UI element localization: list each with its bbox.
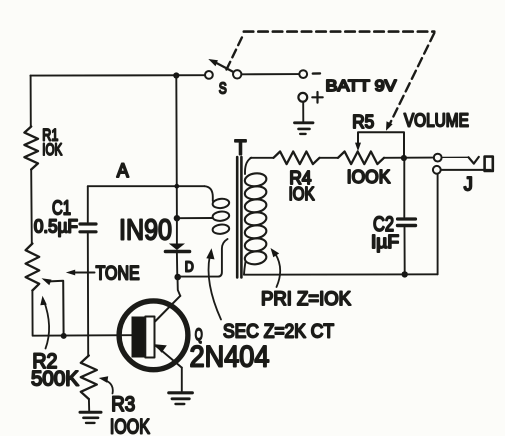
wire center tap to secondary (177, 217, 213, 219)
small junction dot at A crossing (174, 184, 179, 189)
transistor base bar (132, 317, 146, 358)
wire switch to battery terminal (242, 73, 299, 75)
transistor collector line (155, 296, 181, 322)
svg-text:500K: 500K (31, 367, 79, 390)
svg-text:A: A (117, 161, 129, 182)
svg-text:0.5µF: 0.5µF (34, 217, 78, 237)
svg-text:IOOK: IOOK (347, 167, 391, 187)
svg-text:R5: R5 (352, 112, 374, 132)
junction dot center tap (174, 215, 180, 221)
transformer T primary winding (245, 158, 252, 174)
primary bottom lead (244, 262, 246, 275)
switch S right terminal (233, 70, 241, 78)
capacitor C2 bottom lead (404, 228, 406, 275)
svg-text:IOK: IOK (289, 184, 315, 204)
wire primary top to R4 (251, 157, 274, 159)
svg-text:J: J (464, 175, 473, 196)
svg-text:S: S (219, 80, 227, 97)
wire node D to secondary bottom (178, 239, 228, 277)
diode D1 1N90 (169, 244, 185, 251)
jack tip contact V (469, 157, 479, 164)
svg-text:BATT 9V: BATT 9V (326, 78, 397, 95)
capacitor C2 plates (398, 217, 416, 220)
resistor R1 (24, 127, 38, 170)
wire emitter to ground (181, 368, 183, 391)
node A wire (88, 185, 205, 187)
wire bottom rail (244, 273, 438, 275)
wire R3 to ground (88, 399, 90, 411)
svg-text:T: T (235, 137, 247, 160)
svg-text:TONE: TONE (96, 264, 140, 285)
svg-text:IOOK: IOOK (110, 416, 150, 436)
transformer T secondary winding (205, 186, 213, 201)
jack thin line (442, 156, 469, 158)
plus sign (312, 92, 322, 103)
svg-text:D: D (185, 259, 194, 276)
svg-text:PRI Z=IOK: PRI Z=IOK (261, 289, 351, 310)
wire R1 to R2 (30, 170, 33, 244)
wire to diode anode (176, 218, 178, 243)
resistor R4 (274, 152, 320, 165)
capacitor C2 top lead (403, 158, 405, 217)
R2 leader arrow (44, 301, 49, 349)
svg-text:IN90: IN90 (119, 214, 172, 246)
jack sleeve terminal (433, 166, 441, 174)
R2 wiper arrow (47, 281, 64, 336)
emitter arrowhead (155, 344, 167, 353)
transformer T core (236, 157, 239, 277)
emitter ground (169, 391, 193, 394)
TONE pointer arrow (74, 272, 95, 274)
wire left vertical to R1 (30, 76, 32, 127)
svg-text:SEC Z=2K CT: SEC Z=2K CT (223, 322, 334, 343)
switch S left terminal (205, 71, 213, 79)
battery terminal circle (299, 70, 307, 78)
switch S lever (217, 63, 233, 72)
svg-text:IµF: IµF (371, 232, 399, 252)
battery ground (295, 121, 314, 124)
jack sleeve rectangle (485, 157, 493, 171)
dashed mechanical linkage from S (227, 34, 244, 70)
wire plus to ground (302, 102, 304, 122)
junction dot node D (174, 274, 181, 281)
R5 wiper arm (358, 132, 404, 158)
junction dot C2 bottom (402, 271, 408, 277)
SEC leader arrow (209, 256, 221, 320)
wire R4 to R5 (320, 157, 339, 159)
svg-text:VOLUME: VOLUME (404, 111, 469, 131)
junction dot R5/C2 (401, 155, 407, 161)
svg-text:IOK: IOK (42, 140, 62, 159)
wire jack down to rail (437, 174, 439, 274)
wire C1 bottom down to R3 (87, 234, 89, 356)
jack J tip terminal (434, 154, 442, 162)
wire top rail (30, 74, 204, 76)
R3 leader arrow (104, 380, 113, 394)
transistor Q1 circle (119, 301, 188, 370)
resistor R3 (81, 356, 97, 400)
resistor R2 (tone pot) (26, 244, 40, 291)
capacitor C1 top lead from node A (87, 186, 89, 222)
wire R2 bottom to base line (32, 291, 132, 336)
PRI leader arrow (275, 253, 281, 288)
capacitor C1 plates (80, 222, 96, 225)
ground under R3 (80, 411, 101, 414)
battery plus terminal (298, 93, 307, 102)
resistor R5 (volume pot) (338, 152, 384, 165)
wire R5 to jack (384, 157, 434, 159)
svg-text:2N404: 2N404 (190, 341, 270, 374)
transistor emitter line (156, 346, 182, 368)
jack sleeve line (441, 169, 491, 171)
wire node D down to collector (178, 277, 181, 296)
junction dot wiper/base (61, 333, 67, 339)
svg-text:R3: R3 (111, 393, 135, 416)
battery dash (313, 72, 320, 75)
junction dot top rail (173, 72, 179, 78)
wire B+ vertical to center tap (175, 76, 178, 219)
